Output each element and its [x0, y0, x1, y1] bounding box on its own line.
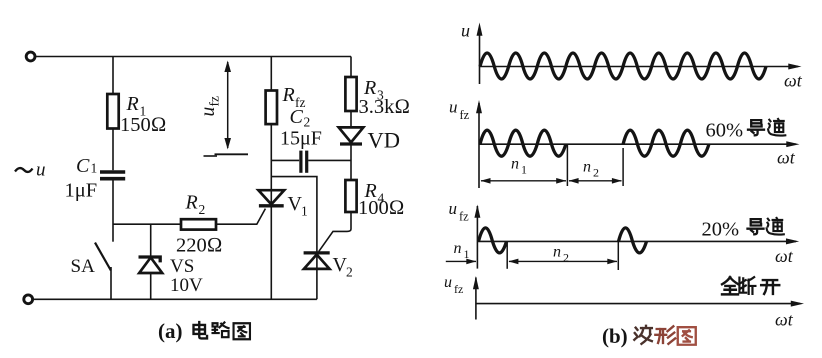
- node u_fz arrowheads: [224, 61, 231, 150]
- wire R3 branch: [350, 57, 352, 78]
- wf2 n2 dimension line: [569, 180, 622, 182]
- wire bottom rail: [33, 298, 317, 300]
- svg-text:VD: VD: [368, 128, 401, 153]
- svg-text:60%: 60%: [706, 120, 744, 142]
- wire R2 to V1 gate: [216, 209, 265, 225]
- wf2 x-axis arrow: [786, 141, 799, 147]
- bottom terminal: [24, 295, 33, 304]
- wf2 burst 2: [623, 130, 709, 156]
- glyph 形 (caption, red-brown): [655, 326, 675, 344]
- label ~u source: [15, 168, 33, 172]
- svg-text:n: n: [454, 240, 462, 257]
- svg-text:u: u: [198, 107, 219, 117]
- wf2 y-axis arrow: [476, 100, 482, 113]
- wire C2 right lead: [308, 159, 351, 161]
- svg-text:n: n: [553, 244, 561, 261]
- wire VS branch: [150, 224, 152, 256]
- zener VS: [139, 257, 161, 262]
- resistor R2: [181, 219, 216, 229]
- wf2 burst 1: [480, 130, 566, 156]
- svg-text:ωt: ωt: [775, 246, 794, 266]
- wf4 x-axis arrow: [791, 301, 804, 307]
- wf2 tick n1/n2 boundary: [566, 145, 568, 186]
- svg-text:15μF: 15μF: [280, 128, 322, 150]
- svg-text:fz: fz: [459, 210, 469, 224]
- svg-text:1: 1: [464, 247, 470, 261]
- glyphs 导通 (20%): [748, 218, 784, 235]
- svg-text:3.3kΩ: 3.3kΩ: [359, 96, 411, 118]
- wf3 u_fz axis: [476, 206, 478, 269]
- svg-text:2: 2: [199, 202, 206, 217]
- wf3 tick n1/n2 boundary: [506, 242, 508, 269]
- glyph 图 (caption, red-brown): [678, 327, 696, 345]
- wire V1 anode line: [270, 124, 272, 299]
- wf3 tick n2 end: [617, 242, 619, 270]
- wf2 u_fz axis: [478, 103, 480, 188]
- glyphs 导通 (60%): [748, 119, 785, 136]
- resistor R4: [345, 180, 356, 212]
- wire R1 branch top: [112, 57, 114, 95]
- wf2 n1 dimension line: [481, 180, 566, 182]
- resistor R3: [345, 77, 356, 111]
- wf1 u axis: [479, 28, 481, 84]
- svg-text:C: C: [290, 106, 304, 128]
- wf2 n1 dim arrows: [481, 178, 491, 184]
- svg-text:100Ω: 100Ω: [358, 197, 405, 219]
- svg-text:(a): (a): [158, 319, 183, 343]
- wf3 n1 outside arrow: [466, 259, 476, 265]
- wire V2 anode branch: [271, 177, 317, 300]
- resistor R1: [107, 94, 118, 129]
- switch SA: [95, 243, 111, 271]
- thyristor V1: [258, 190, 284, 204]
- wf1 x-axis arrow: [788, 64, 801, 70]
- svg-text:1: 1: [301, 204, 308, 219]
- svg-text:2: 2: [346, 265, 353, 280]
- svg-text:u: u: [449, 98, 458, 117]
- svg-text:(b): (b): [602, 324, 628, 348]
- wf3 cycle 1: [479, 228, 507, 253]
- svg-text:ωt: ωt: [777, 148, 796, 168]
- svg-text:1: 1: [91, 161, 98, 176]
- wf1 sine wave: [480, 53, 766, 79]
- wf3 cycle 2: [619, 228, 647, 253]
- waveform text labels: [444, 21, 803, 330]
- wf3 n2 dimension line: [509, 260, 617, 262]
- wire R2 row: [113, 223, 181, 225]
- node u_fz measure arrow: [227, 62, 229, 148]
- wf3 n2 dim arrows: [508, 259, 518, 265]
- wf3 x-axis arrow: [786, 238, 799, 244]
- svg-text:u: u: [461, 21, 470, 41]
- wire top rail: [35, 56, 351, 58]
- top terminal: [26, 52, 35, 61]
- diode VD: [339, 127, 364, 142]
- svg-text:2: 2: [593, 166, 599, 180]
- wire C2 left lead: [271, 159, 299, 161]
- wire R3 to VD: [350, 111, 352, 127]
- thyristor V2: [304, 251, 330, 254]
- svg-text:u: u: [444, 274, 452, 291]
- svg-text:R: R: [282, 84, 295, 106]
- svg-text:10V: 10V: [170, 275, 203, 296]
- svg-text:2: 2: [563, 251, 569, 265]
- label u_fz rotated: [198, 96, 222, 117]
- svg-text:fz: fz: [454, 282, 463, 296]
- resistor Rfz: [266, 91, 277, 125]
- svg-text:u: u: [36, 160, 46, 181]
- svg-text:R: R: [126, 93, 139, 115]
- wf2 tick n2 end: [622, 148, 624, 186]
- wf3 n1 outside-arrow line: [446, 260, 476, 262]
- circuit text labels: [15, 77, 410, 296]
- svg-text:n: n: [583, 159, 591, 176]
- wire C1 down: [112, 181, 114, 242]
- wf2 n2 dim arrows: [569, 178, 579, 184]
- svg-text:150Ω: 150Ω: [120, 114, 167, 136]
- wf3 y-axis arrow: [474, 205, 480, 218]
- svg-text:VS: VS: [170, 256, 194, 277]
- svg-text:fz: fz: [460, 108, 470, 122]
- svg-text:20%: 20%: [702, 219, 740, 241]
- axis arrowheads: [466, 23, 804, 307]
- wf4 y-axis arrow: [473, 276, 479, 289]
- svg-text:fz: fz: [207, 96, 222, 107]
- glyphs 全断开: [722, 277, 779, 294]
- svg-text:1: 1: [521, 163, 527, 177]
- glyph 波 (caption, dark red-black): [634, 326, 652, 344]
- svg-text:n: n: [511, 156, 519, 173]
- svg-text:SA: SA: [71, 256, 96, 277]
- wf4 u_fz axis: [475, 278, 477, 320]
- svg-text:220Ω: 220Ω: [176, 235, 223, 257]
- wire R4 to V2 gate: [319, 212, 351, 252]
- wf1 y-axis arrow: [477, 23, 483, 36]
- svg-text:ωt: ωt: [775, 310, 794, 330]
- svg-text:C: C: [76, 155, 90, 177]
- wire R1 to C1: [112, 129, 114, 171]
- capacitor C2: [299, 151, 302, 173]
- capacitor C1: [100, 170, 125, 174]
- svg-text:ωt: ωt: [784, 71, 803, 91]
- svg-text:R: R: [185, 192, 198, 214]
- svg-text:1μF: 1μF: [65, 180, 98, 202]
- svg-text:u: u: [449, 199, 458, 218]
- wire Rfz branch: [270, 57, 272, 91]
